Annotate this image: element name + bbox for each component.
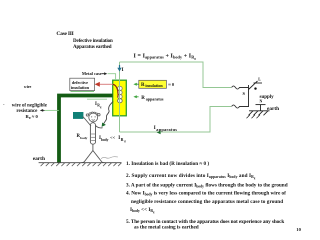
Rapparatus label [133, 95, 163, 101]
svg-text:wire: wire [24, 84, 32, 89]
svg-text:10: 10 [296, 227, 301, 232]
body current squiggle wire from case [102, 102, 114, 127]
supply label [260, 95, 275, 100]
svg-text:R: R [141, 83, 145, 88]
svg-text:I: I [122, 68, 124, 73]
L terminal [254, 78, 263, 83]
wire of negligible resistance note [3, 102, 59, 121]
ground line with hatching [39, 157, 122, 166]
earth wire (thick, negligible resistance) from metal case to ground [59, 96, 113, 164]
supply earth symbol [247, 106, 280, 118]
teal pad touched by left hand [73, 112, 83, 119]
red leader from defect to callout [95, 82, 113, 87]
svg-text:apparatus: apparatus [146, 96, 164, 101]
svg-text:body: body [80, 136, 88, 140]
svg-text:wire of negligible: wire of negligible [12, 103, 47, 108]
svg-text:Apparatus earthed: Apparatus earthed [73, 45, 112, 50]
N terminal [256, 99, 266, 110]
Metal case label with pointer [82, 71, 116, 80]
svg-text:as the metal casing is earthed: as the metal casing is earthed [134, 225, 199, 231]
svg-text:<<: << [110, 135, 116, 140]
svg-text:Defective insulation: Defective insulation [73, 39, 113, 44]
page number [296, 227, 301, 232]
wire bottom run Iapparatus return to supply N [120, 107, 232, 133]
stub light green wire under metal case bar [87, 98, 107, 100]
svg-text:N: N [260, 99, 263, 103]
apparatus yellow body [113, 80, 127, 116]
svg-text:L: L [258, 78, 261, 82]
current label IRg on earth wire [95, 102, 102, 109]
wire top run from node above apparatus to supply [120, 62, 232, 88]
svg-text:R: R [121, 137, 124, 142]
svg-text:earth: earth [267, 106, 279, 112]
svg-text:earth: earth [33, 156, 45, 162]
svg-text:body: body [101, 138, 109, 142]
equation I = Iapparatus + Ibody + IRg [134, 53, 197, 60]
svg-text:1. Insulation is bad (R ins: 1. Insulation is bad (R insulation ≈ 0 ) [126, 160, 209, 167]
defective insulation contact curve inside apparatus [113, 84, 118, 97]
Rbody label (green) [77, 134, 88, 140]
svg-text:insulation: insulation [71, 85, 90, 90]
svg-text:negligible resistance connec: negligible resistance connecting the app… [131, 199, 283, 205]
earth label left [33, 156, 45, 162]
Ibody << IRg label [99, 135, 126, 143]
supply bus and switch S [243, 81, 258, 107]
svg-text:≈ 0: ≈ 0 [32, 114, 39, 119]
svg-text:insulation: insulation [145, 83, 163, 88]
Iapparatus label on bottom wire [154, 126, 177, 134]
wire top squiggle into supply L [232, 86, 249, 89]
current arrow I (blue) at node above apparatus [117, 65, 123, 73]
svg-text:≈ 0: ≈ 0 [168, 82, 175, 87]
Rinsulation label box [133, 80, 174, 88]
wire bottom squiggle into supply N [232, 105, 249, 108]
wire label (supply side) [24, 84, 32, 89]
title Case III [56, 31, 113, 50]
defective insulation callout box [70, 78, 95, 91]
svg-text:3. A part of the supply curre: 3. A part of the supply current Ibody fl… [126, 182, 288, 188]
svg-text:R: R [141, 96, 145, 101]
wire vertical through apparatus [119, 62, 121, 132]
coil inside apparatus [118, 86, 123, 102]
svg-text:Case III: Case III [56, 31, 73, 37]
svg-text:Metal case: Metal case [82, 71, 102, 76]
numbered notes (green) [126, 160, 288, 231]
person [81, 112, 104, 163]
svg-text:apparatus: apparatus [156, 127, 177, 132]
